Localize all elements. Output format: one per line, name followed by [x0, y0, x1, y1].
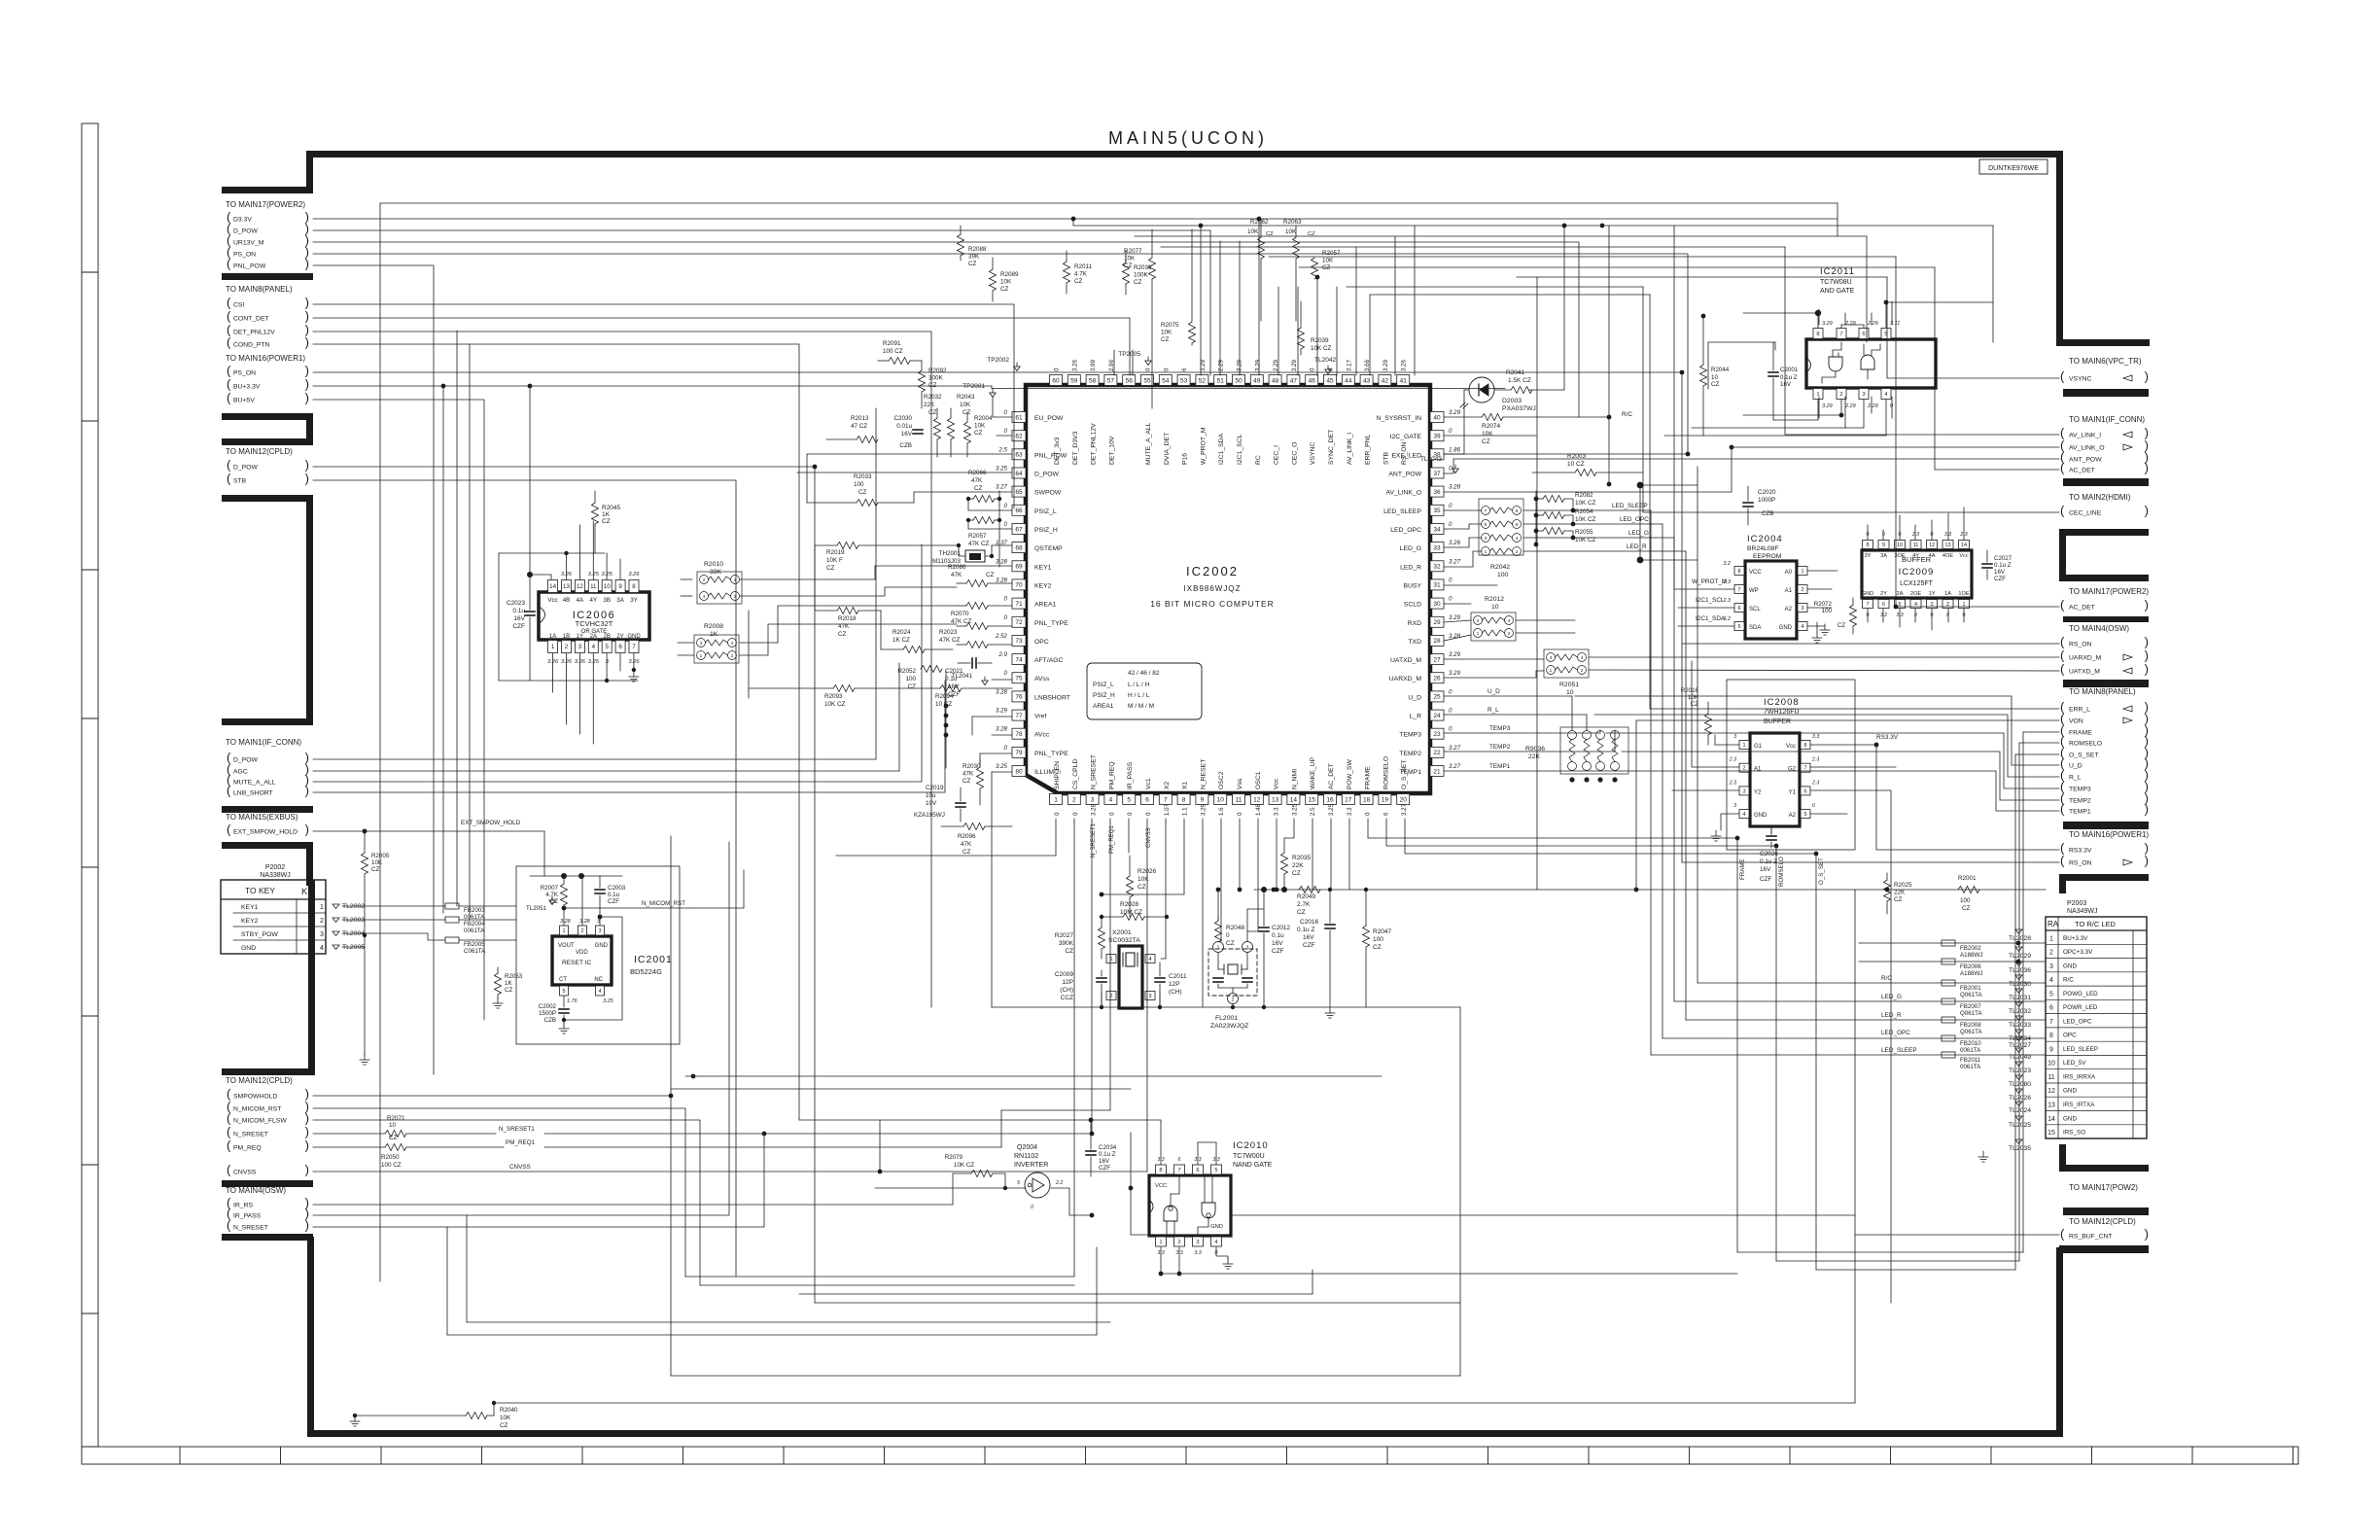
IC2002 pin 12: [1250, 794, 1263, 805]
svg-text:G1: G1: [1754, 744, 1763, 750]
svg-text:C2011: C2011: [1169, 973, 1187, 980]
svg-text:LED_SLEEP: LED_SLEEP: [2063, 1046, 2098, 1053]
resistor network R2008: [694, 635, 739, 663]
IC2002 pin 26: [1430, 673, 1444, 683]
svg-text:17: 17: [1345, 796, 1352, 803]
svg-text:3.27: 3.27: [996, 484, 1008, 491]
svg-text:BR24L08F: BR24L08F: [1747, 545, 1779, 552]
svg-text:4: 4: [592, 644, 596, 650]
node: [1129, 1186, 1134, 1191]
wire: [1523, 550, 1686, 552]
wire: [959, 545, 965, 556]
svg-text:3Y: 3Y: [630, 597, 638, 604]
svg-text:(: (: [227, 377, 231, 392]
svg-text:3.25: 3.25: [602, 572, 613, 577]
svg-text:TEMP1: TEMP1: [1489, 763, 1511, 770]
svg-text:3: 3: [1733, 803, 1736, 809]
ferrite bead: [1942, 998, 1955, 1004]
svg-text:1: 1: [1742, 743, 1745, 749]
svg-text:22K: 22K: [1292, 862, 1304, 869]
wire: [380, 202, 1837, 204]
svg-text:3.25: 3.25: [996, 763, 1008, 770]
node: [691, 1074, 696, 1079]
IC2002 pin 61: [1012, 412, 1026, 423]
svg-text:CONT_DET: CONT_DET: [233, 316, 269, 323]
right bracket bar POWER1 bottom: [2059, 874, 2149, 881]
svg-text:37: 37: [1433, 471, 1441, 477]
wire: [1369, 295, 1371, 375]
IC2002 pin 32: [1430, 561, 1444, 572]
wire: [1161, 917, 1166, 959]
wire: [1536, 530, 1543, 532]
svg-text:CZ: CZ: [1962, 905, 1971, 912]
svg-text:1: 1: [1485, 549, 1487, 555]
NAND gate symbol 1: [1164, 1206, 1177, 1221]
wire: [1000, 1110, 1002, 1147]
wire: [379, 203, 381, 1281]
svg-text:C2026: C2026: [1760, 851, 1778, 857]
svg-text:0: 0: [1145, 812, 1152, 816]
svg-text:6: 6: [1803, 788, 1806, 794]
svg-text:KEY1: KEY1: [1034, 564, 1052, 571]
wire: [1899, 515, 1901, 540]
svg-text:1: 1: [1217, 946, 1220, 952]
svg-text:UARXD_M: UARXD_M: [2069, 655, 2102, 662]
wire: [530, 680, 638, 682]
svg-text:VSYNC: VSYNC: [1310, 441, 1316, 465]
svg-text:2: 2: [565, 644, 569, 650]
svg-text:100: 100: [905, 676, 916, 682]
svg-text:KEY1: KEY1: [241, 904, 259, 911]
svg-text:): ): [305, 1163, 309, 1177]
frame right-bottom vertical: [2056, 1247, 2063, 1437]
svg-text:C2001: C2001: [1780, 367, 1799, 373]
svg-text:FB2005: FB2005: [464, 941, 485, 948]
IC2004 pin 6: [1734, 604, 1744, 612]
wire: [1254, 889, 2046, 891]
svg-text:4: 4: [731, 641, 734, 647]
svg-text:8: 8: [1816, 332, 1819, 337]
wire: [530, 575, 551, 579]
wire: [1173, 1221, 1175, 1236]
svg-text:TL2080: TL2080: [2009, 1081, 2031, 1088]
svg-text:PNL_TYPE: PNL_TYPE: [1034, 751, 1068, 757]
svg-text:(: (: [227, 822, 231, 837]
wire: [1899, 609, 1901, 627]
resistor: [561, 884, 568, 905]
svg-text:74: 74: [1015, 656, 1023, 663]
svg-text:10K: 10K: [500, 1415, 511, 1421]
svg-text:P16: P16: [1182, 453, 1189, 465]
svg-text:OSC1: OSC1: [1255, 771, 1262, 789]
wire: [1816, 1269, 2015, 1271]
svg-text:R2079: R2079: [945, 1154, 963, 1161]
svg-text:UATXD_M: UATXD_M: [1390, 657, 1421, 664]
node: [1199, 224, 1204, 228]
resistor network R2036 22K: [1560, 727, 1628, 774]
wire: [1386, 819, 1776, 1261]
svg-text:N_SRESET: N_SRESET: [1091, 754, 1098, 789]
svg-text:LED_R: LED_R: [1400, 564, 1421, 571]
svg-text:13: 13: [563, 583, 570, 590]
wire: [914, 491, 1012, 493]
svg-text:Y1: Y1: [1789, 789, 1797, 795]
svg-text:GND: GND: [595, 943, 609, 949]
svg-text:4: 4: [1742, 812, 1745, 818]
svg-text:): ): [2145, 369, 2149, 384]
svg-text:(: (: [2060, 461, 2065, 475]
svg-text:100: 100: [1497, 572, 1509, 578]
svg-text:CZ: CZ: [1711, 381, 1719, 388]
svg-text:12P: 12P: [1062, 979, 1073, 986]
svg-text:3.29: 3.29: [1822, 403, 1833, 409]
svg-text:MUTE_A_ALL: MUTE_A_ALL: [233, 780, 276, 787]
svg-text:KEY2: KEY2: [241, 918, 259, 925]
IC2002 pin 2: [1067, 794, 1080, 805]
wire: [1622, 752, 2059, 800]
wire: [313, 254, 1688, 454]
svg-text:TCVHC32T: TCVHC32T: [576, 619, 613, 628]
svg-text:PSIZ_H: PSIZ_H: [1093, 692, 1115, 699]
IC2006 pin 7: [629, 641, 639, 653]
wire: [1444, 509, 1482, 511]
IC2002 pin 51: [1214, 375, 1227, 386]
wire: [1355, 247, 1357, 375]
bracket vertical along TO KEY: [308, 880, 315, 1075]
wire: [1887, 277, 2059, 378]
svg-text:R2027: R2027: [1055, 932, 1074, 939]
svg-text:P2002: P2002: [265, 864, 285, 871]
resistor: [857, 500, 878, 507]
svg-text:12: 12: [577, 583, 583, 590]
svg-text:R2032: R2032: [924, 394, 942, 401]
svg-text:CNVSS: CNVSS: [509, 1164, 531, 1171]
IC2002 pin 25: [1430, 691, 1444, 702]
svg-text:N_SYSRST_IN: N_SYSRST_IN: [1377, 415, 1422, 422]
svg-text:2.29: 2.29: [1867, 321, 1878, 327]
wire: [992, 544, 1012, 546]
svg-text:3: 3: [1742, 788, 1745, 794]
node: [2016, 941, 2021, 946]
svg-text:(: (: [2060, 802, 2065, 817]
wire: [543, 831, 545, 876]
svg-text:NA338WJ: NA338WJ: [260, 872, 291, 879]
wire: [1161, 1273, 1737, 1275]
right bracket bar CPLD bottom: [2059, 1245, 2149, 1253]
capacitor: [595, 889, 605, 891]
svg-text:10: 10: [1491, 604, 1499, 611]
resistor network R2051: [1544, 649, 1589, 678]
svg-text:N_MICOM_RST: N_MICOM_RST: [642, 900, 685, 907]
wire: [1216, 1247, 1228, 1259]
svg-text:10K: 10K: [1161, 330, 1172, 336]
svg-text:3.99: 3.99: [1090, 359, 1097, 371]
wire: [1051, 1188, 1092, 1215]
test point TL2004: [332, 931, 339, 936]
svg-text:R_L: R_L: [2069, 775, 2082, 782]
wire: [1312, 819, 1313, 890]
ground: [1824, 624, 1826, 630]
svg-text:IC2011: IC2011: [1820, 266, 1855, 277]
ground: [497, 997, 499, 1003]
wire: [592, 653, 594, 671]
right bracket bar POW2 bottom: [2063, 1207, 2149, 1215]
wire: [1866, 236, 1868, 342]
op IC2002 16 BIT MICRO COMPUTER body: [1026, 385, 1430, 793]
IC2001 pin 5: [560, 986, 569, 996]
wire: [1859, 942, 2046, 944]
node: [1534, 513, 1539, 518]
svg-text:(: (: [2060, 369, 2065, 384]
IC2011 pin 2: [1837, 389, 1846, 400]
svg-text:BUSY: BUSY: [1403, 582, 1421, 589]
wire: [566, 671, 568, 724]
svg-text:IR_PASS: IR_PASS: [1127, 761, 1134, 789]
wire: [1536, 498, 1543, 500]
wire: [313, 1095, 671, 1097]
resistor: [385, 1144, 406, 1151]
svg-text:0.1u: 0.1u: [608, 892, 620, 898]
svg-text:RS3.3V: RS3.3V: [2069, 848, 2092, 855]
wire: [1444, 459, 2059, 473]
svg-text:R2057: R2057: [968, 533, 987, 540]
wire: [2018, 743, 2020, 1261]
wire: [1867, 369, 1869, 379]
svg-text:0: 0: [1237, 812, 1243, 816]
svg-text:CCZ: CCZ: [1061, 995, 1073, 1001]
svg-text:1: 1: [562, 928, 565, 934]
svg-text:5: 5: [1737, 624, 1740, 630]
IC2009 pin 5: [1895, 600, 1906, 609]
svg-text:CZ: CZ: [500, 1422, 508, 1429]
right bracket bar POWER2 bottom: [2063, 616, 2149, 622]
IC2008 pin 3: [1739, 787, 1749, 795]
ground: [1329, 1007, 1331, 1013]
wire: [313, 466, 815, 468]
svg-text:59: 59: [1070, 377, 1078, 384]
capacitor: [913, 429, 923, 431]
wire: [1444, 635, 1471, 641]
svg-text:100: 100: [1373, 936, 1383, 943]
svg-text:16V: 16V: [1780, 381, 1792, 388]
wire: [1459, 1007, 1461, 1376]
svg-text:5: 5: [1214, 1168, 1217, 1173]
IC2002 pin 74: [1012, 654, 1026, 665]
svg-text:TO MAIN12(CPLD): TO MAIN12(CPLD): [2069, 1217, 2136, 1226]
wire: [1444, 524, 1482, 529]
wire: [1817, 400, 1819, 420]
svg-text:4: 4: [1516, 536, 1519, 542]
IC2006 pin 9: [615, 580, 625, 593]
svg-text:0.1u Z: 0.1u Z: [1760, 858, 1777, 865]
resistor: [833, 685, 855, 692]
resistor: [1127, 876, 1134, 897]
IC2010 pin 1: [1156, 1237, 1167, 1246]
wire: [740, 606, 957, 643]
IC2002 pin 46: [1306, 375, 1318, 386]
IC2011 pin 8: [1813, 329, 1823, 339]
svg-text:0: 0: [1882, 532, 1885, 538]
svg-text:R2025: R2025: [1894, 882, 1912, 889]
resistor: [973, 517, 995, 524]
svg-text:1A: 1A: [1944, 591, 1951, 597]
svg-text:3: 3: [2049, 963, 2053, 970]
svg-text:0: 0: [1004, 503, 1008, 509]
IC2001 pin 3: [596, 926, 605, 935]
wire: [1260, 259, 1262, 321]
capacitor: [525, 611, 535, 612]
svg-text:ROMSELO: ROMSELO: [2069, 741, 2102, 748]
svg-text:3: 3: [700, 641, 703, 647]
svg-text:R2051: R2051: [1559, 682, 1579, 688]
IC2002 pin 79: [1012, 747, 1026, 757]
svg-text:C2002: C2002: [539, 1003, 557, 1010]
IC2002 pin 55: [1141, 375, 1154, 386]
ferrite bead: [1942, 1017, 1955, 1023]
svg-text:5: 5: [562, 989, 565, 995]
svg-text:RXD: RXD: [1408, 620, 1421, 627]
svg-text:CZ: CZ: [928, 382, 937, 389]
node: [1534, 497, 1539, 502]
svg-text:0: 0: [1914, 612, 1917, 618]
svg-text:AND GATE: AND GATE: [1820, 288, 1855, 295]
svg-text:RN1102: RN1102: [1014, 1153, 1038, 1160]
svg-text:41: 41: [1400, 377, 1408, 384]
svg-text:3: 3: [1485, 536, 1487, 542]
test point: [1145, 361, 1151, 366]
svg-text:16V: 16V: [513, 615, 525, 622]
svg-text:R2045: R2045: [602, 505, 621, 511]
svg-text:10K CZ: 10K CZ: [954, 1162, 974, 1169]
svg-text:TO MAIN2(HDMI): TO MAIN2(HDMI): [2069, 493, 2131, 502]
svg-text:(: (: [227, 458, 231, 472]
svg-text:65: 65: [1015, 489, 1023, 496]
svg-text:80: 80: [1015, 768, 1023, 775]
svg-text:TL2041: TL2041: [952, 673, 973, 680]
svg-text:16V: 16V: [1994, 569, 2006, 576]
svg-text:0: 0: [1004, 614, 1008, 621]
svg-text:6: 6: [1737, 606, 1740, 612]
svg-text:3.29: 3.29: [1449, 651, 1461, 658]
IC2008 pin 5: [1801, 810, 1810, 819]
svg-text:A188WJ: A188WJ: [1960, 952, 1982, 959]
svg-text:3.2: 3.2: [1723, 561, 1731, 567]
IC2010 pin 3: [1193, 1237, 1204, 1246]
svg-text:I2C1_SDA: I2C1_SDA: [1218, 433, 1225, 465]
svg-text:1OE: 1OE: [1958, 591, 1969, 597]
svg-text:R_L: R_L: [1487, 707, 1499, 714]
svg-text:): ): [305, 458, 309, 472]
svg-text:10: 10: [1897, 542, 1903, 548]
wire: [1131, 1133, 1149, 1235]
svg-text:CZ: CZ: [1226, 940, 1235, 947]
IC2011 pin 7: [1837, 329, 1846, 339]
wire: [681, 578, 692, 580]
svg-text:CZ: CZ: [968, 261, 977, 267]
svg-text:3.28: 3.28: [996, 726, 1008, 733]
svg-text:R/C: R/C: [2063, 977, 2074, 984]
IC2002 pin 14: [1287, 794, 1300, 805]
wire: [1269, 256, 1896, 258]
svg-text:10K: 10K: [1000, 279, 1012, 286]
wire: [700, 1284, 1074, 1286]
svg-text:1K CZ: 1K CZ: [892, 637, 910, 644]
svg-text:EXT_SMPOW_HOLD: EXT_SMPOW_HOLD: [233, 829, 297, 836]
wire: [1678, 625, 1734, 627]
svg-text:RA: RA: [2047, 920, 2059, 928]
svg-text:2: 2: [580, 928, 583, 934]
test point TL2031: [2015, 989, 2022, 994]
svg-text:GND: GND: [1210, 1224, 1223, 1230]
svg-text:3.27: 3.27: [1401, 803, 1408, 816]
svg-text:): ): [305, 296, 309, 310]
wire: [313, 663, 899, 771]
wire: [313, 242, 1579, 417]
wire: [1650, 295, 2059, 709]
ferrite bead: [1942, 940, 1955, 946]
wire: [1776, 1260, 2019, 1262]
svg-text:33: 33: [1433, 544, 1441, 551]
svg-text:3.26: 3.26: [628, 572, 640, 577]
resistor: [966, 603, 988, 610]
wire: [1840, 325, 1842, 328]
svg-text:N_MICOM_FLSW: N_MICOM_FLSW: [233, 1118, 287, 1125]
svg-text:2.9: 2.9: [997, 651, 1007, 658]
svg-text:0: 0: [1054, 367, 1061, 371]
svg-text:ROMSELO: ROMSELO: [1778, 857, 1785, 887]
node: [1100, 892, 1104, 897]
wire: [1882, 530, 1884, 540]
IC2008 7WH126FU BUFFER enclosure: [1727, 680, 1855, 850]
svg-text:49: 49: [1253, 377, 1261, 384]
part number box DUNTKE976WE: [1979, 159, 2047, 174]
svg-text:STBY_POW: STBY_POW: [241, 931, 278, 938]
svg-text:40: 40: [1433, 414, 1441, 421]
svg-text:FB2004: FB2004: [464, 921, 485, 927]
svg-text:3: 3: [1477, 618, 1480, 624]
svg-text:3: 3: [1196, 1240, 1199, 1245]
X2001 pin 2: [1106, 992, 1116, 1000]
wire: [740, 587, 957, 596]
diode D2003 PXA037WJ: [1469, 377, 1494, 402]
svg-text:R2053: R2053: [505, 973, 523, 980]
svg-text:32: 32: [1433, 564, 1441, 571]
svg-text:H / L / L: H / L / L: [1128, 692, 1150, 699]
svg-text:TL2032: TL2032: [2009, 1008, 2031, 1015]
svg-text:WP: WP: [1749, 588, 1759, 594]
resistor: [1064, 262, 1070, 283]
svg-text:L / L / H: L / L / H: [1128, 682, 1150, 688]
wire: [992, 734, 1012, 736]
svg-text:8: 8: [1159, 1168, 1162, 1173]
svg-text:): ): [2145, 1227, 2149, 1242]
frame right step vertical: [2056, 151, 2063, 346]
svg-text:100 CZ: 100 CZ: [381, 1162, 402, 1169]
svg-text:3.26: 3.26: [628, 659, 640, 665]
svg-text:2.3: 2.3: [1729, 757, 1736, 763]
svg-text:0: 0: [1449, 708, 1452, 715]
svg-text:R2038: R2038: [1134, 264, 1152, 271]
svg-text:3B: 3B: [603, 597, 611, 604]
node: [1607, 415, 1612, 420]
wire: [1692, 427, 1864, 429]
wire: [459, 919, 516, 921]
svg-text:AC_DET: AC_DET: [2069, 605, 2095, 612]
svg-text:TO MAIN4(OSW): TO MAIN4(OSW): [2069, 624, 2129, 633]
wire: [1715, 744, 1739, 746]
svg-text:100K: 100K: [928, 375, 944, 382]
svg-text:TL2030: TL2030: [2009, 981, 2031, 988]
